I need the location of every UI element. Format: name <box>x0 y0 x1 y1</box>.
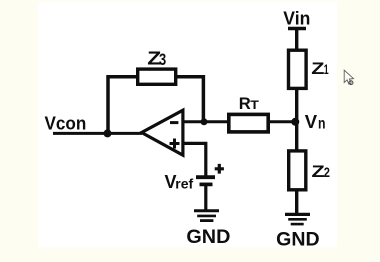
battery Vref positive plate <box>196 175 215 179</box>
wire Vcon input <box>53 132 142 135</box>
ground symbol right bar 1 <box>285 213 310 216</box>
op-amp non-inverting input marker <box>170 139 180 149</box>
wire op-amp inverting input to RT <box>183 120 229 123</box>
op-amp U1 <box>142 110 183 155</box>
svg-text:Z: Z <box>312 162 325 181</box>
ground symbol right bar 3 <box>291 223 304 226</box>
ground symbol left bar 1 <box>194 209 219 212</box>
ground symbol left bar 2 <box>197 215 216 218</box>
svg-text:1: 1 <box>324 61 329 77</box>
svg-text:Vcon: Vcon <box>45 112 87 133</box>
svg-text:3: 3 <box>159 50 166 69</box>
mouse cursor <box>344 70 353 84</box>
battery Vref negative plate <box>200 183 213 187</box>
battery plus sign <box>215 164 224 174</box>
wire Z3 left leg <box>108 77 138 134</box>
terminal Vin bar <box>288 27 306 30</box>
svg-text:ref: ref <box>175 175 193 191</box>
wire op-amp non-inverting input to Vref battery <box>183 143 206 176</box>
svg-text:Vin: Vin <box>283 7 310 28</box>
svg-text:V: V <box>305 111 318 132</box>
svg-text:GND: GND <box>186 227 230 248</box>
wire Z3 right leg <box>176 77 203 122</box>
node Vn junction dot <box>291 118 299 126</box>
ground symbol left bar 3 <box>200 219 213 222</box>
svg-text:Z: Z <box>311 59 324 78</box>
resistor Z3 <box>138 69 176 84</box>
resistor Z2 <box>289 151 306 190</box>
node feedback junction dot <box>201 118 208 125</box>
svg-text:R: R <box>239 94 251 113</box>
ground symbol right bar 2 <box>288 218 307 221</box>
op-amp inverting input marker <box>170 121 178 124</box>
svg-text:GND: GND <box>276 230 320 251</box>
wire battery to ground <box>204 186 207 211</box>
svg-text:2: 2 <box>324 164 330 180</box>
svg-text:T: T <box>250 98 259 112</box>
wire Vin to Z1 <box>295 29 298 52</box>
wire Z1 to Z2 through node Vn <box>295 88 298 151</box>
resistor Z1 <box>289 50 307 88</box>
node Vcon junction dot <box>104 129 112 137</box>
page canvas <box>38 2 338 248</box>
svg-text:n: n <box>318 116 326 133</box>
wire RT to node Vn <box>269 120 296 123</box>
resistor RT <box>229 114 268 131</box>
wire Z2 to ground <box>295 189 298 214</box>
